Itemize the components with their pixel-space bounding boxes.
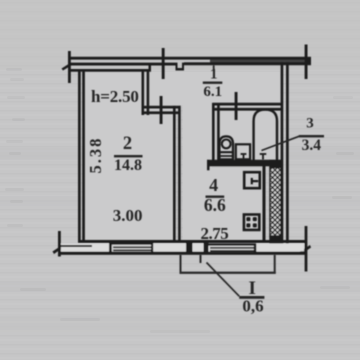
wire closet left wall inner line — [147, 72, 150, 116]
wire top exterior wall inner line left segment — [70, 63, 176, 66]
wire bathroom left wall inner line — [217, 103, 220, 160]
wire right exterior wall inner line — [286, 62, 289, 243]
svg-text:14.8: 14.8 — [114, 157, 142, 174]
wash basin — [236, 144, 250, 159]
svg-text:2: 2 — [123, 134, 132, 154]
svg-text:4: 4 — [209, 175, 218, 195]
wire closet left wall outer line — [142, 72, 145, 116]
svg-text:0,6: 0,6 — [242, 297, 263, 316]
dash right end of bottom wall — [300, 245, 312, 255]
kitchen sink — [244, 172, 260, 188]
jamb left of window W1 — [109, 243, 112, 253]
tick bathroom door mark — [235, 92, 238, 120]
svg-text:6.1: 6.1 — [203, 84, 222, 100]
entry door jog recess — [176, 63, 185, 71]
wire bottom wall outer line — [58, 252, 307, 255]
wire bathroom top wall outer line — [212, 103, 281, 106]
window row strip — [61, 244, 304, 252]
bathtub — [254, 110, 277, 162]
svg-text:h=2.50: h=2.50 — [91, 87, 139, 106]
dash left end of top wall — [62, 63, 73, 71]
vent shaft solid block bottom — [269, 236, 281, 244]
fraction bar room 4 — [206, 196, 225, 198]
wire sill line left pier — [58, 245, 92, 247]
wire top exterior wall outer line — [70, 57, 311, 60]
leader line to label 3/3.4 — [262, 136, 300, 150]
tick right end of top wall — [305, 45, 308, 80]
wire bathroom left wall outer line — [212, 103, 215, 160]
vent shaft hatched duct — [270, 168, 281, 237]
tick opening mark on top wall — [162, 48, 165, 79]
svg-text:3.00: 3.00 — [113, 206, 143, 225]
wire bathroom bottom wall left hook — [207, 160, 210, 171]
wire dark strip right of windows — [256, 240, 281, 243]
wire kitchen shaft partition line — [263, 166, 266, 241]
wire right exterior wall outer line — [281, 62, 284, 243]
window W1 room 2 — [112, 243, 154, 253]
tick above room 1 label — [213, 65, 215, 70]
svg-text:6.6: 6.6 — [204, 195, 226, 215]
balcony door jamb line — [200, 255, 202, 263]
pier between balcony door and window — [186, 243, 193, 253]
fraction bar room 2 — [114, 155, 143, 157]
stove — [244, 215, 259, 230]
wire left exterior wall inner line — [82, 72, 85, 241]
svg-text:3.4: 3.4 — [302, 137, 322, 154]
wire room 2 top inner line riser — [149, 64, 152, 72]
tick left end of bottom wall — [58, 231, 61, 257]
tick right end of bottom wall — [305, 226, 308, 272]
wire closet bottom wall upper line — [142, 106, 181, 109]
fraction bar room 1 — [203, 82, 223, 84]
leader line to label I/0,6 — [207, 263, 240, 297]
fraction bar balcony — [239, 296, 264, 299]
balcony outline — [180, 255, 276, 274]
svg-text:3: 3 — [306, 116, 314, 132]
window W3 kitchen — [209, 244, 257, 253]
tick left end of top wall — [68, 51, 71, 83]
svg-text:1: 1 — [210, 67, 218, 83]
wire top exterior wall inner line right segment — [184, 62, 311, 65]
tick opening mark on closet wall — [160, 96, 163, 124]
svg-text:2.75: 2.75 — [201, 224, 229, 243]
vent shaft solid block top — [269, 160, 281, 168]
wire bottom wall inner line — [78, 240, 307, 243]
fraction bar room 3 — [299, 135, 324, 137]
wire top wall right end lug — [308, 58, 312, 65]
wire left exterior wall outer line — [78, 69, 81, 243]
dash left end of bottom wall — [53, 245, 65, 255]
svg-text:5.38: 5.38 — [86, 137, 105, 174]
wire room2-hall partition outer line — [173, 106, 176, 242]
wire bathroom top wall inner line — [212, 108, 281, 111]
wire closet bottom wall lower line — [142, 111, 181, 114]
wire bathroom bottom wall band — [207, 160, 281, 167]
wire room2-hall partition inner line — [178, 106, 181, 242]
wire top wall gap fill right part — [210, 60, 311, 63]
jamb left of kitchen window — [204, 243, 209, 253]
toilet — [219, 136, 233, 159]
wire room 2 top inner wall line — [70, 69, 151, 72]
